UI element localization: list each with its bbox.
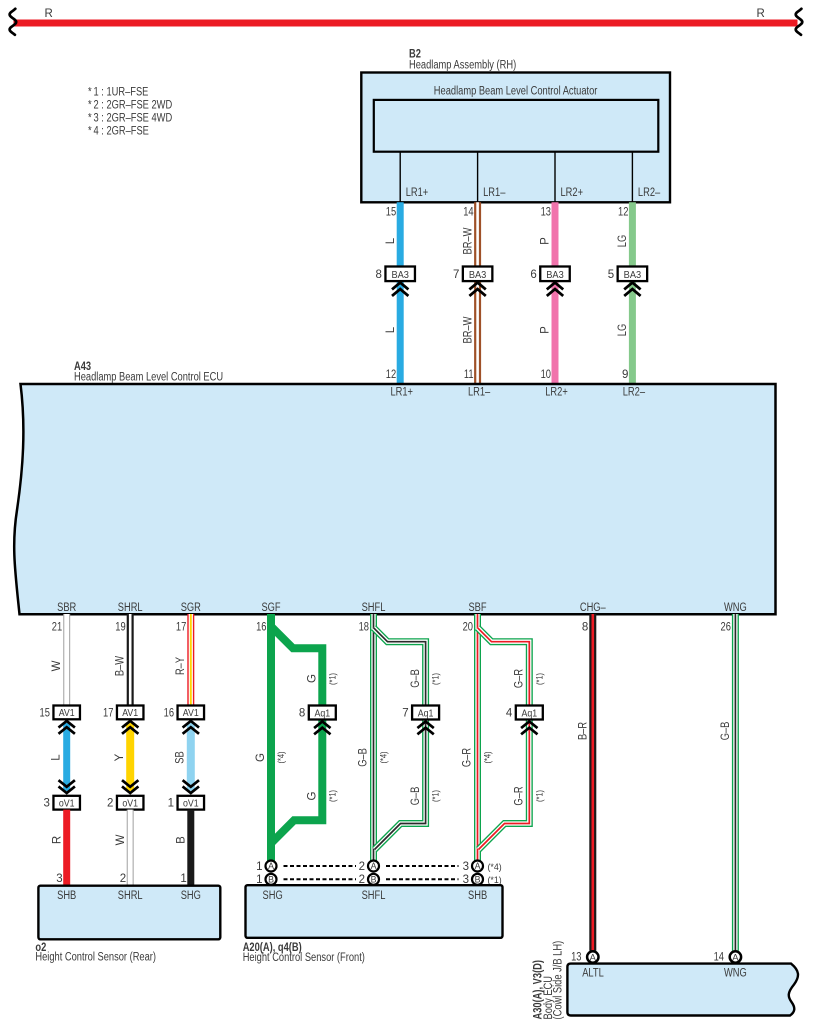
svg-text:14: 14: [463, 207, 474, 219]
rear sensor pin label SHB: [57, 890, 76, 902]
label Y: [114, 753, 126, 761]
A43 top pin label LR1+: [390, 386, 413, 398]
svg-text:2: 2: [120, 873, 126, 885]
wire W A43 to AV1: [63, 614, 70, 706]
svg-text:3: 3: [56, 873, 62, 885]
svg-text:Aq1: Aq1: [314, 708, 330, 719]
wire G branch from Aq1 rejoining main (lower, *1): [272, 719, 322, 842]
component o2 Height Control Sensor (Rear) box: [38, 886, 220, 940]
svg-text:12: 12: [618, 207, 628, 219]
svg-text:LR2+: LR2+: [561, 187, 584, 199]
label G branch lower: [307, 791, 319, 800]
pin 14 of B2: [463, 207, 474, 219]
actuator internal lead pin LR2+: [555, 152, 583, 203]
label B: [176, 836, 188, 844]
svg-text:17: 17: [103, 707, 113, 719]
svg-text:SHRL: SHRL: [118, 890, 143, 902]
connector oV1 pin 1: [168, 796, 204, 810]
connector AV1 pin 15: [40, 706, 80, 720]
pin 3 of rear sensor: [56, 873, 62, 885]
wire B oV1 to sensor: [187, 810, 194, 886]
svg-text:LR2–: LR2–: [623, 386, 646, 398]
label A20(A), q4(B): [243, 942, 302, 954]
pin 16 of A43 (bottom): [256, 621, 266, 633]
wire Y AV1 to oV1 with connector arrows: [122, 721, 138, 793]
node 2B front sensor terminal: [359, 874, 379, 886]
break symbol right: [796, 9, 803, 35]
svg-text:LR2–: LR2–: [638, 187, 661, 199]
label A30(A), V3(D): [533, 960, 545, 1020]
svg-text:Headlamp Assembly (RH): Headlamp Assembly (RH): [409, 60, 516, 72]
label SB: [175, 751, 187, 764]
svg-text:A: A: [590, 952, 597, 963]
label L upper: [385, 237, 397, 244]
pin 26 of A43 (bottom): [721, 621, 731, 633]
svg-text:(*1): (*1): [534, 790, 544, 802]
label (*1) branch upper: [327, 673, 337, 685]
svg-text:A: A: [475, 861, 481, 871]
svg-text:9: 9: [622, 369, 628, 381]
svg-text:Y: Y: [114, 753, 126, 761]
wire G branch to Aq1 (upper, *1): [271, 626, 322, 706]
wire B–R from A43 CHG– to body ECU: [589, 614, 596, 951]
label (*1) branch lower: [327, 790, 337, 802]
actuator internal lead pin LR2–: [632, 152, 660, 203]
wire R power rail (red bus): [14, 20, 798, 27]
A43 bottom pin label SBF: [468, 602, 486, 614]
label (*1) branch upper: [534, 673, 544, 685]
label G main: [255, 753, 267, 762]
svg-text:SGR: SGR: [181, 602, 201, 614]
svg-text:P: P: [540, 326, 552, 334]
connector oV1 pin 2: [107, 796, 143, 810]
svg-text:Aq1: Aq1: [418, 708, 434, 719]
svg-text:Aq1: Aq1: [521, 708, 537, 719]
connector Aq1 pin 8: [299, 706, 336, 735]
svg-text:BR–W: BR–W: [462, 316, 474, 343]
label R: [51, 836, 63, 844]
A43 bottom pin label SBR: [57, 602, 76, 614]
component A43 Headlamp Beam Level Control ECU box: [14, 384, 775, 614]
pin 2 of rear sensor: [120, 873, 126, 885]
label LG lower: [617, 324, 629, 336]
svg-text:BA3: BA3: [391, 269, 409, 281]
node 3A front sensor terminal: [463, 861, 483, 873]
wire G–B branch from Aq1 rejoining main (lower, *1): [375, 719, 426, 850]
svg-text:16: 16: [164, 707, 174, 719]
svg-text:AV1: AV1: [183, 708, 199, 719]
svg-text:R: R: [44, 8, 52, 20]
label W: [115, 834, 127, 845]
sub-component Headlamp Beam Level Control Actuator box: [374, 86, 659, 152]
svg-text:(*1): (*1): [534, 673, 544, 685]
svg-text:SHFL: SHFL: [362, 602, 386, 614]
pin 15 of B2: [386, 207, 396, 219]
body ECU pin label WNG: [724, 967, 747, 979]
svg-text:G–R: G–R: [462, 748, 474, 767]
wire R oV1 to sensor: [63, 810, 70, 886]
wire L AV1 to oV1 with connector arrows: [59, 721, 75, 793]
svg-text:WNG: WNG: [724, 602, 747, 614]
label G branch upper: [307, 674, 319, 683]
svg-text:G: G: [307, 791, 319, 800]
svg-text:W: W: [51, 660, 63, 671]
wire G–R branch to Aq1 (upper, *1): [478, 628, 530, 707]
svg-text:1: 1: [256, 861, 262, 873]
svg-text:A: A: [732, 952, 739, 963]
wire R–Y A43 to AV1: [187, 614, 194, 706]
svg-text:L: L: [385, 326, 397, 333]
svg-text:(*4): (*4): [483, 751, 493, 763]
svg-text:8: 8: [376, 269, 382, 281]
connector oV1 pin 3: [44, 796, 80, 810]
label G–B right: [720, 721, 732, 740]
label Height Control Sensor (Front): [243, 952, 365, 964]
svg-text:B: B: [475, 875, 481, 885]
svg-text:18: 18: [359, 621, 369, 633]
wire L from B2 pin to A43 (upper segment): [397, 202, 404, 385]
node 1A front sensor terminal: [256, 861, 276, 873]
wire P from B2 pin to A43 (upper segment): [552, 202, 559, 385]
A43 bottom pin label SGR: [181, 602, 201, 614]
svg-text:4: 4: [506, 708, 513, 720]
node 13A body ECU terminal: [571, 951, 598, 963]
svg-text:1: 1: [168, 798, 174, 810]
dashed link B row 1B-2B: [284, 878, 357, 880]
label Headlamp Beam Level Control ECU: [74, 372, 223, 384]
pin 1 of rear sensor: [180, 873, 186, 885]
rear sensor pin label SHRL: [118, 890, 143, 902]
svg-text:B: B: [176, 836, 188, 844]
pin 21 of A43 (bottom): [52, 621, 62, 633]
wire G–B branch to Aq1 (upper, *1): [374, 628, 426, 707]
svg-text:LG: LG: [617, 235, 629, 247]
rear sensor pin label SHG: [181, 890, 201, 902]
svg-text:LR1–: LR1–: [468, 386, 491, 398]
front sensor pin label SHB: [468, 890, 487, 902]
label BR–W upper: [462, 227, 474, 254]
svg-text:(*4): (*4): [488, 862, 502, 872]
wire G–B A43 to front sensor (main, *4): [370, 614, 377, 861]
label L: [50, 754, 62, 761]
svg-text:SHRL: SHRL: [118, 602, 143, 614]
label L lower: [385, 326, 397, 333]
svg-text:(Cowl Side J/B LH): (Cowl Side J/B LH): [553, 941, 565, 1020]
svg-text:LG: LG: [617, 324, 629, 336]
label G–B branch lower: [410, 786, 422, 805]
actuator internal lead pin LR1–: [478, 152, 506, 203]
svg-text:Height Control Sensor (Front): Height Control Sensor (Front): [243, 952, 365, 964]
svg-text:13: 13: [571, 952, 581, 964]
svg-text:20: 20: [463, 621, 473, 633]
svg-text:SGF: SGF: [261, 602, 280, 614]
svg-text:6: 6: [530, 269, 536, 281]
svg-text:SHG: SHG: [263, 890, 283, 902]
front sensor pin label SHG: [263, 890, 283, 902]
wire G A43 to front sensor (main, *4): [267, 614, 275, 861]
svg-text:SHB: SHB: [57, 890, 76, 902]
label B–W: [114, 656, 126, 676]
svg-text:7: 7: [402, 708, 408, 720]
pin 18 of A43 (bottom): [359, 621, 369, 633]
label R–Y: [175, 657, 187, 675]
svg-text:LR1+: LR1+: [390, 386, 413, 398]
label G–R main: [462, 748, 474, 767]
label R left: [44, 8, 52, 20]
label Body ECU: [543, 976, 555, 1020]
svg-text:AV1: AV1: [59, 708, 75, 719]
label B–R: [578, 722, 590, 740]
svg-text:W: W: [115, 834, 127, 845]
pin 11 of A43 (top): [464, 369, 474, 381]
svg-text:G–R: G–R: [514, 786, 526, 805]
svg-text:oV1: oV1: [122, 798, 138, 809]
connector AV1 pin 16: [164, 706, 204, 720]
svg-text:oV1: oV1: [183, 798, 199, 809]
svg-text:A: A: [268, 861, 274, 871]
actuator internal lead pin LR1+: [400, 152, 428, 203]
svg-text:SHB: SHB: [468, 890, 487, 902]
body ECU pin label ALTL: [582, 967, 604, 979]
component B2 Headlamp Assembly (RH) box: [361, 73, 670, 203]
wire SB AV1 to oV1 with connector arrows: [183, 721, 199, 793]
svg-text:15: 15: [40, 707, 50, 719]
legend engine variant notes: [88, 87, 172, 138]
svg-text:AV1: AV1: [122, 708, 138, 719]
svg-text:(*1): (*1): [327, 790, 337, 802]
wire B–W A43 to AV1: [127, 614, 134, 706]
label Headlamp Assembly (RH): [409, 60, 516, 72]
svg-text:B: B: [371, 875, 377, 885]
svg-text:BA3: BA3: [469, 269, 487, 281]
svg-text:(*4): (*4): [379, 751, 389, 763]
connector Aq1 pin 7: [402, 706, 439, 735]
node 1B front sensor terminal: [256, 874, 276, 886]
svg-text:1: 1: [180, 873, 186, 885]
svg-text:10: 10: [541, 369, 551, 381]
pin 8 of A43 (bottom): [582, 621, 588, 633]
wire G–R A43 to front sensor (main, *4): [474, 614, 481, 861]
svg-text:(*4): (*4): [276, 751, 286, 763]
svg-text:14: 14: [714, 952, 725, 964]
component A30(A), V3(D) Body ECU (Cowl Side J/B LH) box: [567, 964, 798, 1016]
svg-text:* 3 : 2GR–FSE 4WD: * 3 : 2GR–FSE 4WD: [88, 113, 172, 125]
wire G–B from A43 WNG to body ECU: [732, 614, 739, 951]
label (*1) at node 3B: [488, 875, 502, 885]
pin 12 of B2: [618, 207, 628, 219]
label (*1) branch lower: [534, 790, 544, 802]
svg-text:7: 7: [453, 269, 459, 281]
label (*1) branch lower: [431, 790, 441, 802]
svg-text:G–R: G–R: [514, 669, 526, 688]
pin 13 of B2: [541, 207, 551, 219]
svg-text:13: 13: [541, 207, 551, 219]
A43 top pin label LR2–: [623, 386, 646, 398]
svg-text:B–W: B–W: [114, 656, 126, 676]
A43 top pin label LR2+: [545, 386, 568, 398]
A43 bottom pin label SHFL: [362, 602, 386, 614]
svg-text:21: 21: [52, 621, 62, 633]
break symbol left: [10, 9, 17, 35]
svg-text:3: 3: [44, 798, 50, 810]
A43 bottom pin label SHRL: [118, 602, 143, 614]
dashed link A row 2A-3A: [386, 865, 459, 867]
svg-text:BR–W: BR–W: [462, 227, 474, 254]
label G–R branch lower: [514, 786, 526, 805]
svg-text:P: P: [540, 237, 552, 245]
label W: [51, 660, 63, 671]
svg-text:G–B: G–B: [410, 786, 422, 805]
node 3B front sensor terminal: [463, 874, 483, 886]
label LG upper: [617, 235, 629, 247]
svg-text:(*1): (*1): [431, 673, 441, 685]
svg-text:A: A: [371, 861, 377, 871]
svg-text:BA3: BA3: [546, 269, 564, 281]
svg-text:WNG: WNG: [724, 967, 747, 979]
component A20(A), q4(B) Height Control Sensor (Front) box: [246, 885, 503, 938]
svg-text:* 1 : 1UR–FSE: * 1 : 1UR–FSE: [88, 87, 149, 99]
svg-text:11: 11: [464, 369, 474, 381]
svg-text:G: G: [255, 753, 267, 762]
svg-text:* 2 : 2GR–FSE 2WD: * 2 : 2GR–FSE 2WD: [88, 100, 172, 112]
label B2: [409, 49, 421, 61]
svg-text:LR2+: LR2+: [545, 386, 568, 398]
svg-text:SHFL: SHFL: [362, 890, 386, 902]
svg-text:R–Y: R–Y: [175, 657, 187, 675]
pin 20 of A43 (bottom): [463, 621, 473, 633]
svg-text:R: R: [51, 836, 63, 844]
label G–B branch upper: [410, 669, 422, 688]
label (*4) at node 3A: [488, 862, 502, 872]
svg-text:2: 2: [107, 798, 113, 810]
connector BA3 pin 8: [376, 267, 415, 296]
label Height Control Sensor (Rear): [35, 951, 156, 963]
svg-text:oV1: oV1: [59, 798, 75, 809]
svg-text:12: 12: [386, 369, 396, 381]
svg-text:L: L: [385, 237, 397, 244]
wire G–R branch from Aq1 rejoining main (lower, *1): [479, 719, 530, 850]
svg-text:19: 19: [115, 621, 125, 633]
svg-text:SB: SB: [175, 751, 187, 764]
svg-text:(*1): (*1): [327, 673, 337, 685]
svg-text:ALTL: ALTL: [582, 967, 604, 979]
svg-text:Headlamp Beam Level Control EC: Headlamp Beam Level Control ECU: [74, 372, 223, 384]
svg-text:SBR: SBR: [57, 602, 76, 614]
dashed link B row 2B-3B: [386, 878, 459, 880]
svg-text:5: 5: [608, 269, 614, 281]
label P lower: [540, 326, 552, 334]
svg-text:BA3: BA3: [624, 269, 642, 281]
svg-text:3: 3: [463, 861, 469, 873]
svg-text:* 4 : 2GR–FSE: * 4 : 2GR–FSE: [88, 126, 149, 138]
svg-text:Height Control Sensor (Rear): Height Control Sensor (Rear): [35, 951, 156, 963]
label (*4) main: [276, 751, 286, 763]
label (*4) main: [483, 751, 493, 763]
A43 bottom pin label CHG–: [580, 602, 606, 614]
connector BA3 pin 7: [453, 267, 492, 296]
svg-text:26: 26: [721, 621, 731, 633]
svg-text:G–B: G–B: [410, 669, 422, 688]
wire BR–W from B2 pin to A43 (upper segment): [474, 202, 481, 385]
svg-text:SHG: SHG: [181, 890, 201, 902]
connector BA3 pin 6: [530, 267, 569, 296]
svg-text:16: 16: [256, 621, 266, 633]
pin 9 of A43 (top): [622, 369, 628, 381]
front sensor pin label SHFL: [362, 890, 386, 902]
svg-text:B: B: [268, 875, 274, 885]
pin 12 of A43 (top): [386, 369, 396, 381]
connector AV1 pin 17: [103, 706, 143, 720]
svg-text:SBF: SBF: [468, 602, 486, 614]
svg-text:Headlamp Beam Level Control Ac: Headlamp Beam Level Control Actuator: [434, 86, 598, 98]
node 14A body ECU terminal: [714, 951, 742, 963]
label (*4) main: [379, 751, 389, 763]
svg-text:G–B: G–B: [358, 748, 370, 767]
svg-text:B–R: B–R: [578, 722, 590, 740]
svg-text:8: 8: [299, 708, 305, 720]
svg-text:R: R: [757, 8, 765, 20]
svg-text:CHG–: CHG–: [580, 602, 606, 614]
A43 top pin label LR1–: [468, 386, 491, 398]
label (*1) branch upper: [431, 673, 441, 685]
wire LG from B2 pin to A43 (upper segment): [629, 202, 636, 385]
dashed link A row 1A-2A: [284, 865, 357, 867]
connector BA3 pin 5: [608, 267, 647, 296]
svg-text:(*1): (*1): [431, 790, 441, 802]
label A43: [74, 361, 91, 373]
svg-text:(*1): (*1): [488, 875, 502, 885]
svg-text:8: 8: [582, 621, 588, 633]
svg-text:LR1–: LR1–: [483, 187, 506, 199]
connector Aq1 pin 4: [506, 706, 543, 735]
label (Cowl Side J/B LH): [553, 941, 565, 1020]
A43 bottom pin label SGF: [261, 602, 280, 614]
label o2: [35, 942, 46, 954]
svg-text:17: 17: [176, 621, 186, 633]
pin 10 of A43 (top): [541, 369, 551, 381]
node 2A front sensor terminal: [359, 861, 379, 873]
svg-text:G: G: [307, 674, 319, 683]
svg-text:LR1+: LR1+: [406, 187, 429, 199]
pin 17 of A43 (bottom): [176, 621, 186, 633]
svg-text:15: 15: [386, 207, 396, 219]
svg-text:2: 2: [359, 861, 365, 873]
label G–R branch upper: [514, 669, 526, 688]
label BR–W lower: [462, 316, 474, 343]
svg-text:L: L: [50, 754, 62, 761]
A43 bottom pin label WNG: [724, 602, 747, 614]
svg-text:G–B: G–B: [720, 721, 732, 740]
wire W oV1 to sensor: [127, 810, 134, 886]
label R right: [757, 8, 765, 20]
pin 19 of A43 (bottom): [115, 621, 125, 633]
label P upper: [540, 237, 552, 245]
label G–B main: [358, 748, 370, 767]
